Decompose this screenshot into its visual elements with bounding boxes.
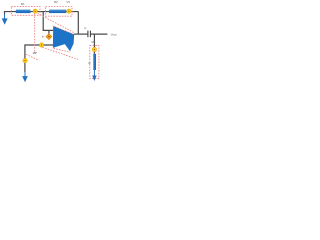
- rubber band diagonal B1 from node VP: [42, 47, 78, 59]
- rubber band vertical line: [34, 14, 36, 52]
- wire input left horizontal to R1 and node A: [5, 12, 79, 15]
- resistor R1: [16, 9, 31, 13]
- resistor R3: [93, 54, 96, 70]
- ground arrow below R3: [92, 70, 96, 81]
- svg-text:V2: V2: [66, 0, 70, 4]
- resistor R2: [49, 9, 66, 13]
- input terminal arrow top-left: [2, 14, 8, 25]
- wire non-inverting input with left ground branch: [25, 45, 53, 72]
- wire op-amp output to capacitor: [74, 33, 88, 35]
- wire drop to R3: [93, 34, 95, 54]
- node D junction: [92, 47, 96, 51]
- svg-text:R1: R1: [21, 2, 25, 6]
- port In diamond: [46, 34, 52, 40]
- node VP junction: [39, 43, 43, 47]
- svg-text:R2: R2: [54, 0, 58, 4]
- ground arrow bottom-left: [22, 72, 28, 82]
- rubber band diagonal A from node A to op-amp tip: [35, 12, 74, 33]
- svg-text:R3: R3: [92, 40, 96, 44]
- wire branch to op-amp inverting input: [43, 12, 53, 31]
- node B junction: [67, 9, 71, 13]
- rubber band dashes along op-amp top edge: [53, 26, 74, 34]
- selection box around R2: [46, 7, 73, 17]
- svg-text:Vout: Vout: [111, 33, 117, 37]
- node C junction: [23, 59, 27, 63]
- wire vertical drop from node B column to output line: [77, 12, 79, 35]
- svg-text:In: In: [42, 34, 45, 38]
- wire pin stub of port In: [48, 30, 50, 34]
- selection box around R3: [90, 45, 99, 78]
- svg-text:C: C: [84, 26, 87, 30]
- capacitor C plates: [88, 31, 91, 38]
- rubber band diagonal B2: [26, 54, 38, 60]
- rubber band along op-amp bottom edge: [54, 48, 71, 52]
- svg-text:1k: 1k: [88, 62, 91, 65]
- svg-text:VP: VP: [33, 51, 37, 55]
- op-amp U1 with output arrow: [53, 26, 74, 52]
- node A junction: [33, 9, 37, 13]
- selection box around R1: [11, 6, 40, 15]
- wire capacitor to Vout: [91, 33, 108, 35]
